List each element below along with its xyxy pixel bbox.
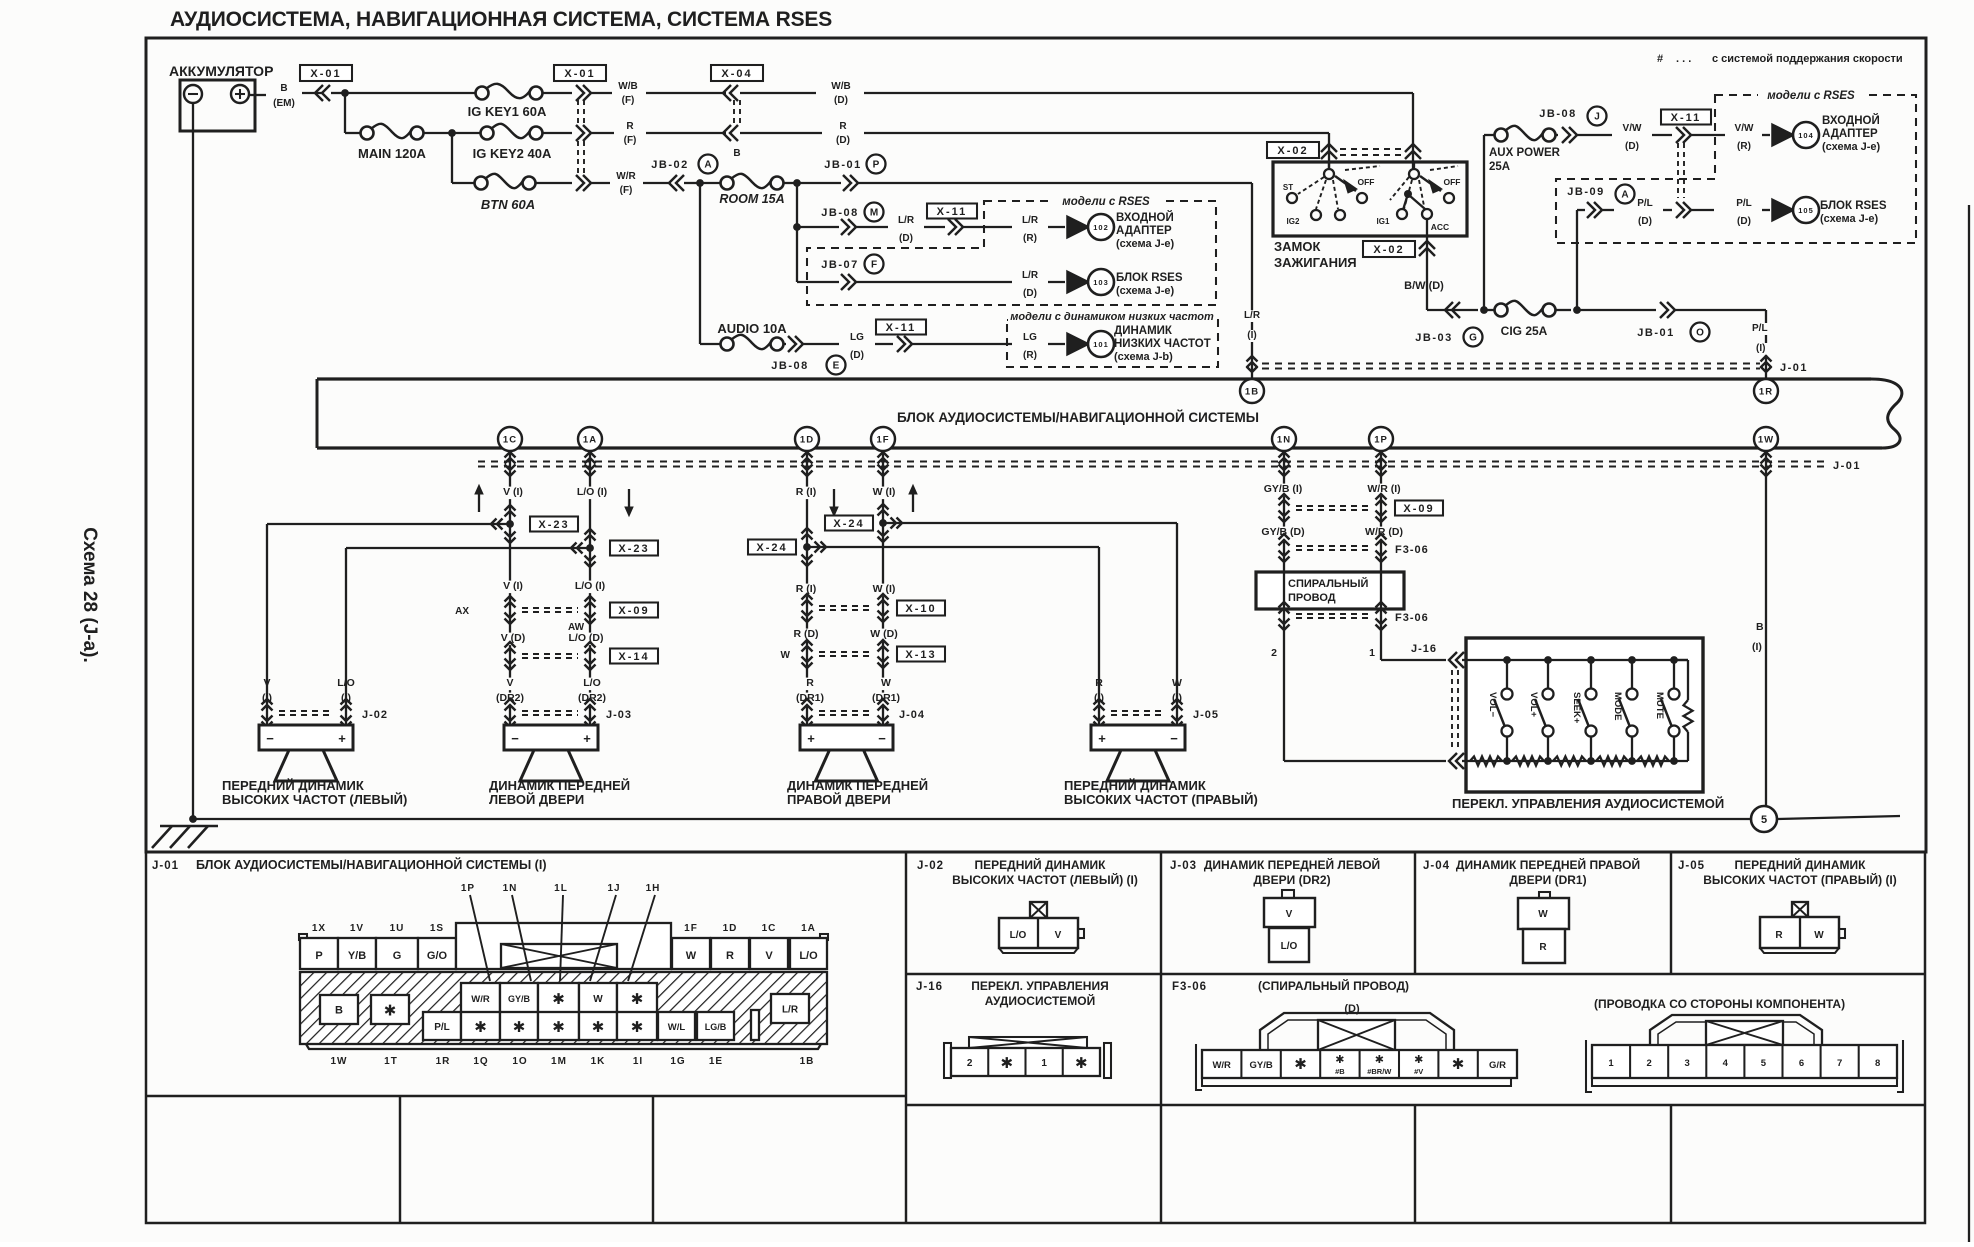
fuse IG KEY1 60A <box>476 87 489 100</box>
svg-text:R: R <box>626 121 634 132</box>
svg-text:1W: 1W <box>1758 435 1774 446</box>
wire X-23 to left tweeter L/O <box>346 547 590 549</box>
connector arrow JB-02 <box>676 175 684 191</box>
wire W/R column <box>1380 450 1382 660</box>
svg-text:ПРАВОЙ ДВЕРИ: ПРАВОЙ ДВЕРИ <box>787 792 891 807</box>
svg-text:X-23: X-23 <box>618 543 649 555</box>
svg-text:1T: 1T <box>384 1056 398 1067</box>
svg-text:ВХОДНОЙ: ВХОДНОЙ <box>1822 114 1880 127</box>
svg-text:ПЕРЕДНИЙ ДИНАМИК: ПЕРЕДНИЙ ДИНАМИК <box>1064 778 1206 793</box>
svg-text:1W: 1W <box>331 1056 348 1067</box>
label GY/B (D) <box>1255 527 1311 540</box>
svg-text:8: 8 <box>1875 1058 1880 1069</box>
svg-text:F: F <box>871 260 877 271</box>
wire 2 to control switch <box>1284 760 1446 762</box>
fuse BTN 60A <box>475 177 488 190</box>
wire battery to X-01 <box>302 92 322 94</box>
svg-text:✱: ✱ <box>384 1003 397 1020</box>
svg-text:3: 3 <box>1685 1058 1690 1069</box>
svg-text:J-02: J-02 <box>917 860 944 872</box>
svg-text:X-09: X-09 <box>618 605 649 617</box>
label X-04 <box>711 65 763 81</box>
inline connector X-10 <box>802 594 813 600</box>
svg-text:W/R: W/R <box>616 171 636 182</box>
svg-text:E: E <box>833 361 840 372</box>
svg-text:101: 101 <box>1093 340 1109 349</box>
svg-text:V/W: V/W <box>1623 123 1642 134</box>
wire W/B (F) <box>591 92 612 94</box>
svg-text:P/L: P/L <box>1736 198 1752 209</box>
pin 1P <box>1369 427 1393 451</box>
inline connector X-09 right <box>1279 494 1290 500</box>
svg-text:ЛЕВОЙ ДВЕРИ: ЛЕВОЙ ДВЕРИ <box>489 792 584 807</box>
node after CIG fuse <box>1573 306 1581 314</box>
svg-text:#V: #V <box>1414 1067 1423 1076</box>
connector J-03 drawing <box>1282 890 1294 898</box>
wire W/B (D) <box>740 92 816 94</box>
junction X-24 no1 (W) <box>878 504 889 510</box>
svg-text:1N: 1N <box>1277 435 1291 446</box>
svg-text:1R: 1R <box>436 1056 451 1067</box>
svg-text:(ПРОВОДКА СО СТОРОНЫ КОМПОНЕНТ: (ПРОВОДКА СО СТОРОНЫ КОМПОНЕНТА) <box>1594 997 1845 1011</box>
svg-text:X-11: X-11 <box>1671 112 1702 124</box>
ground symbol <box>160 825 218 828</box>
svg-text:JB-07: JB-07 <box>821 259 858 271</box>
svg-text:V: V <box>765 950 773 962</box>
svg-text:R (I): R (I) <box>796 486 816 498</box>
label W (DR1) <box>881 678 892 691</box>
wire to BTN fuse <box>451 133 453 183</box>
svg-text:1L: 1L <box>554 883 568 894</box>
svg-text:B: B <box>733 148 740 159</box>
svg-text:L/R: L/R <box>1244 310 1261 321</box>
svg-text:ВХОДНОЙ: ВХОДНОЙ <box>1116 211 1174 224</box>
svg-text:(I): (I) <box>1752 641 1762 653</box>
svg-text:X-24: X-24 <box>833 518 864 530</box>
svg-text:W: W <box>1538 909 1548 920</box>
speaker right tweeter <box>1091 725 1185 750</box>
svg-text:LG: LG <box>1023 332 1037 343</box>
connector arrow X-01 harness <box>322 85 330 101</box>
svg-text:ВЫСОКИХ ЧАСТОТ (ЛЕВЫЙ): ВЫСОКИХ ЧАСТОТ (ЛЕВЫЙ) <box>222 792 407 807</box>
svg-text:103: 103 <box>1093 278 1109 287</box>
svg-text:L/O: L/O <box>799 950 818 962</box>
svg-text:IG KEY2 40A: IG KEY2 40A <box>473 146 552 161</box>
label P/L (I) <box>1752 323 1775 335</box>
svg-text:1P: 1P <box>461 883 475 894</box>
svg-text:#BR/W: #BR/W <box>1367 1067 1392 1076</box>
label R (D) <box>788 629 825 642</box>
spiral wire box СПИРАЛЬНЫЙ ПРОВОД <box>1256 572 1404 609</box>
svg-text:ST: ST <box>1283 183 1293 192</box>
svg-text:5: 5 <box>1761 1058 1767 1069</box>
pin 1C <box>498 427 522 451</box>
inline connector X-04 marks W/B <box>730 85 738 101</box>
label V (I) b <box>495 581 532 594</box>
svg-text:BTN 60A: BTN 60A <box>481 197 535 212</box>
svg-text:2: 2 <box>1646 1058 1651 1069</box>
svg-text:(D): (D) <box>1737 216 1751 227</box>
svg-text:JB-01: JB-01 <box>1637 327 1674 339</box>
label X-11 upper <box>927 204 977 219</box>
svg-text:1X: 1X <box>312 923 326 934</box>
svg-text:1G: 1G <box>670 1056 685 1067</box>
svg-text:L/R: L/R <box>1022 270 1039 281</box>
svg-text:ПЕРЕКЛ. УПРАВЛЕНИЯ: ПЕРЕКЛ. УПРАВЛЕНИЯ <box>971 979 1108 993</box>
svg-text:V: V <box>1055 930 1062 941</box>
svg-text:1F: 1F <box>876 435 889 446</box>
inline connector X-14 <box>505 642 516 648</box>
wire W column <box>882 450 884 725</box>
svg-text:AUDIO 10A: AUDIO 10A <box>717 321 787 336</box>
svg-text:#B: #B <box>1335 1067 1345 1076</box>
wire R column <box>806 450 808 725</box>
svg-text:G: G <box>1469 333 1477 344</box>
svg-text:B: B <box>335 1005 343 1017</box>
svg-text:+: + <box>1098 731 1106 746</box>
connector label X-01 left <box>300 65 352 81</box>
svg-text:1D: 1D <box>800 435 814 446</box>
page edge line <box>1968 205 1970 1242</box>
wire X-24 to right tweeter R <box>807 546 1099 548</box>
label X-11 right <box>1661 110 1711 125</box>
label L/O (I) b <box>565 581 615 594</box>
connector arrow JB-01 O <box>1660 302 1668 318</box>
svg-text:F3-06: F3-06 <box>1395 612 1429 624</box>
svg-text:6: 6 <box>1799 1058 1804 1069</box>
svg-text:V: V <box>506 677 513 689</box>
svg-text:VOL−: VOL− <box>1487 692 1498 718</box>
svg-text:с системой поддержания скорост: с системой поддержания скорости <box>1712 53 1903 65</box>
fuse MAIN 120A <box>361 127 374 140</box>
svg-text:−: − <box>1170 731 1178 746</box>
svg-text:W/L: W/L <box>668 1022 686 1033</box>
label W/R (D) <box>1359 527 1409 540</box>
inline connector F3-06 upper <box>1279 534 1290 540</box>
inline connector J-16 marks <box>1456 652 1464 668</box>
svg-text:✱: ✱ <box>474 1019 487 1036</box>
svg-text:−: − <box>878 731 886 746</box>
wire B column <box>1765 450 1767 806</box>
svg-text:БЛОК RSES: БЛОК RSES <box>1820 200 1887 212</box>
svg-text:(R): (R) <box>1737 141 1751 152</box>
table outer frame <box>146 852 1925 1223</box>
svg-text:JB-08: JB-08 <box>821 207 858 219</box>
connector J-16 drawing <box>969 1037 1087 1048</box>
svg-text:L/R: L/R <box>1022 215 1039 226</box>
svg-text:AUX POWER: AUX POWER <box>1489 147 1561 159</box>
connector arrow AUX POWER <box>1556 134 1558 136</box>
svg-text:R (I): R (I) <box>796 583 816 595</box>
resistor ladder in switch <box>1470 757 1502 766</box>
wire L/R (I) drop to 1B <box>1251 183 1253 379</box>
label pin 1 <box>1367 648 1378 661</box>
svg-text:1F: 1F <box>684 923 698 934</box>
svg-text:X-11: X-11 <box>937 206 968 218</box>
label R (I) a <box>788 487 825 500</box>
svg-text:L/R: L/R <box>898 215 915 226</box>
svg-text:J-04: J-04 <box>1423 860 1450 872</box>
svg-text:2: 2 <box>967 1058 973 1069</box>
svg-text:ПЕРЕДНИЙ ДИНАМИК: ПЕРЕДНИЙ ДИНАМИК <box>1735 857 1867 872</box>
svg-text:ROOM 15A: ROOM 15A <box>719 192 784 206</box>
svg-text:J-01: J-01 <box>1780 362 1808 374</box>
ground bus wire <box>192 103 194 819</box>
inline connector J-01 bottom marks <box>585 452 596 458</box>
schematic ref 103 RSES unit <box>1067 271 1089 293</box>
fuse AUX POWER 25A <box>1495 129 1508 142</box>
svg-text:(схема J-b): (схема J-b) <box>1114 351 1173 363</box>
ignition switch right pole <box>1409 169 1419 179</box>
label W (I) a <box>866 487 903 500</box>
inline connector J-02 <box>266 677 268 725</box>
schematic ref 104 input adapter <box>1772 124 1794 146</box>
connector J-01 sliver cell <box>751 1010 759 1040</box>
svg-text:1U: 1U <box>390 923 405 934</box>
svg-text:GY/B: GY/B <box>1249 1060 1272 1071</box>
svg-text:1K: 1K <box>591 1056 606 1067</box>
wire JB-01 P <box>797 182 841 184</box>
svg-text:JB-02: JB-02 <box>651 159 688 171</box>
svg-text:V (I): V (I) <box>503 580 523 592</box>
inline connector J-03 <box>505 699 516 705</box>
label V (DR2) <box>505 678 516 691</box>
svg-text:БЛОК АУДИОСИСТЕМЫ/НАВИГАЦИОННО: БЛОК АУДИОСИСТЕМЫ/НАВИГАЦИОННОЙ СИСТЕМЫ … <box>196 857 546 872</box>
svg-text:СПИРАЛЬНЫЙ: СПИРАЛЬНЫЙ <box>1288 577 1369 590</box>
svg-text:W/R: W/R <box>1212 1060 1231 1071</box>
fuse ROOM 15A <box>721 177 734 190</box>
svg-text:1I: 1I <box>633 1056 643 1067</box>
svg-text:102: 102 <box>1093 223 1109 232</box>
svg-text:X-04: X-04 <box>721 68 752 80</box>
svg-text:✱: ✱ <box>513 1019 526 1036</box>
wire 1 to control switch <box>1381 659 1446 661</box>
node 5 <box>1751 806 1777 832</box>
svg-text:L/O: L/O <box>583 677 601 689</box>
inline connector X-02 marks <box>1321 144 1337 152</box>
svg-text:W (I): W (I) <box>873 486 896 498</box>
table verticals <box>905 852 907 1223</box>
svg-text:V/W: V/W <box>1735 123 1754 134</box>
svg-text:✱: ✱ <box>1452 1056 1465 1073</box>
speaker left door <box>504 725 598 750</box>
svg-text:W (D): W (D) <box>870 628 897 640</box>
pin 1F <box>871 427 895 451</box>
inline connector X-01 dashed link <box>577 100 579 126</box>
label R (DR1) <box>805 678 816 691</box>
svg-text:25A: 25A <box>1489 161 1510 173</box>
svg-text:ДИНАМИК: ДИНАМИК <box>1114 325 1173 337</box>
connector arrow X-11 E <box>897 336 905 352</box>
pin 1W <box>1754 427 1778 451</box>
svg-text:+: + <box>807 731 815 746</box>
connector J-01 hatched body <box>300 972 827 1044</box>
svg-text:1N: 1N <box>503 883 518 894</box>
inline connector X-02 marks ACC <box>1419 241 1435 249</box>
svg-text:АУДИОСИСТЕМОЙ: АУДИОСИСТЕМОЙ <box>985 993 1096 1008</box>
svg-text:2: 2 <box>1271 647 1277 659</box>
svg-text:L/O: L/O <box>1010 930 1027 941</box>
svg-text:J-02: J-02 <box>362 709 388 721</box>
junction X-23 no2 <box>585 529 596 535</box>
svg-text:ДИНАМИК ПЕРЕДНЕЙ ПРАВОЙ: ДИНАМИК ПЕРЕДНЕЙ ПРАВОЙ <box>1456 857 1640 872</box>
connector J-04 drawing <box>1539 892 1550 899</box>
connector J-01 pin cell B <box>320 995 358 1024</box>
svg-text:БЛОК АУДИОСИСТЕМЫ/НАВИГАЦИОННО: БЛОК АУДИОСИСТЕМЫ/НАВИГАЦИОННОЙ СИСТЕМЫ <box>897 410 1259 425</box>
svg-text:SEEK+: SEEK+ <box>1571 692 1582 724</box>
pin 1D <box>795 427 819 451</box>
svg-text:B/W (D): B/W (D) <box>1404 280 1444 292</box>
inline connector X-01 marks R <box>576 125 584 141</box>
svg-text:V: V <box>1286 909 1293 920</box>
schematic ref 102 input adapter <box>1067 216 1089 238</box>
inline connector X-01 marks W/R <box>576 175 584 191</box>
svg-text:JB-09: JB-09 <box>1567 186 1604 198</box>
connector J-01 crossed cell <box>501 944 617 968</box>
dashed region models with RSES left <box>807 201 1216 305</box>
svg-text:X-02: X-02 <box>1373 244 1404 256</box>
svg-text:(F): (F) <box>620 185 633 196</box>
svg-text:L/O (I): L/O (I) <box>577 486 607 498</box>
svg-text:модели с RSES: модели с RSES <box>1767 90 1855 102</box>
connector F3-06 harness-side drawing <box>1260 1013 1454 1050</box>
svg-text:R: R <box>806 677 814 689</box>
svg-text:1B: 1B <box>800 1056 815 1067</box>
svg-text:1C: 1C <box>503 435 517 446</box>
svg-text:ДИНАМИК ПЕРЕДНЕЙ: ДИНАМИК ПЕРЕДНЕЙ <box>787 778 928 793</box>
arrow down R <box>833 489 835 511</box>
wire JB-09 branch <box>1576 210 1578 310</box>
connector J-01 pin cell L/R <box>771 994 809 1023</box>
svg-text:✱: ✱ <box>631 991 644 1008</box>
svg-text:W/R: W/R <box>471 994 490 1005</box>
label W (I) b <box>866 584 903 597</box>
svg-text:1P: 1P <box>1374 435 1388 446</box>
connector J-02 drawing <box>1030 902 1047 918</box>
svg-text:АДАПТЕР: АДАПТЕР <box>1822 128 1878 140</box>
pin 1N <box>1272 427 1296 451</box>
svg-text:ПЕРЕДНИЙ ДИНАМИК: ПЕРЕДНИЙ ДИНАМИК <box>222 778 364 793</box>
svg-text:J-05: J-05 <box>1193 709 1219 721</box>
wire JB-01 O <box>1577 309 1656 311</box>
table horizontals <box>906 973 1925 975</box>
svg-text:X-02: X-02 <box>1277 145 1308 157</box>
inline connector J-05 <box>1098 677 1100 725</box>
wire GY/B column <box>1283 450 1285 761</box>
dashed region models with woofer <box>1007 320 1218 367</box>
inline connector J-01 bottom marks <box>1279 452 1290 458</box>
connector J-01 pin cell star <box>371 995 409 1024</box>
label L/O (DR2) <box>580 678 604 691</box>
svg-text:P/L: P/L <box>1637 198 1653 209</box>
svg-text:1A: 1A <box>801 923 816 934</box>
svg-text:ПРОВОД: ПРОВОД <box>1288 592 1336 604</box>
pin 1A <box>578 427 602 451</box>
inline connector X-11 dashed link right <box>1677 143 1679 198</box>
svg-text:ВЫСОКИХ ЧАСТОТ (ЛЕВЫЙ) (I): ВЫСОКИХ ЧАСТОТ (ЛЕВЫЙ) (I) <box>952 872 1138 887</box>
svg-text:P: P <box>873 160 880 171</box>
svg-text:J: J <box>1594 112 1600 123</box>
svg-text:R: R <box>726 950 734 962</box>
label pin 2 <box>1269 648 1280 661</box>
inline connector F3-06 lower <box>1279 602 1290 608</box>
ignition switch left pole <box>1324 169 1334 179</box>
svg-text:БЛОК RSES: БЛОК RSES <box>1116 272 1183 284</box>
svg-text:M: M <box>870 208 878 219</box>
svg-text:JB-08: JB-08 <box>1539 108 1576 120</box>
schematic ref 101 woofer <box>1067 333 1089 355</box>
svg-text:НИЗКИХ ЧАСТОТ: НИЗКИХ ЧАСТОТ <box>1114 338 1211 350</box>
svg-text:J-04: J-04 <box>899 709 925 721</box>
inline connector J-01 bottom marks <box>802 452 813 458</box>
svg-text:X-13: X-13 <box>905 649 936 661</box>
svg-text:JB-03: JB-03 <box>1415 332 1452 344</box>
node main junction <box>341 89 349 97</box>
svg-text:GY/B: GY/B <box>508 994 531 1004</box>
svg-text:1A: 1A <box>583 435 597 446</box>
inline connector X-11 marks V/W <box>1676 127 1684 143</box>
svg-text:✱: ✱ <box>1414 1054 1423 1066</box>
svg-text:J-03: J-03 <box>1170 860 1197 872</box>
svg-text:W: W <box>781 650 791 661</box>
svg-text:X-09: X-09 <box>1403 503 1434 515</box>
svg-text:(R): (R) <box>1023 350 1037 361</box>
svg-text:(D): (D) <box>1023 288 1037 299</box>
speaker right door <box>800 725 893 750</box>
svg-text:(схема J-e): (схема J-e) <box>1820 213 1879 225</box>
svg-text:R: R <box>839 121 847 132</box>
svg-text:1: 1 <box>1041 1058 1047 1069</box>
arrow down L/O <box>628 489 630 511</box>
svg-text:1: 1 <box>1369 647 1375 659</box>
svg-text:(ЕМ): (ЕМ) <box>273 98 295 109</box>
svg-text:MODE: MODE <box>1612 692 1623 721</box>
fuse IG KEY2 40A <box>481 127 494 140</box>
svg-text:1O: 1O <box>512 1056 527 1067</box>
svg-text:R: R <box>1539 942 1547 953</box>
svg-text:1D: 1D <box>723 923 738 934</box>
svg-text:ДВЕРИ (DR1): ДВЕРИ (DR1) <box>1509 873 1586 887</box>
label GY/B (I) <box>1255 484 1311 497</box>
switch SEEK+ <box>1590 660 1592 688</box>
fuse CIG 25A <box>1484 309 1494 311</box>
wire X-24 to right tweeter W <box>883 522 1177 524</box>
switch VOL- <box>1506 660 1508 688</box>
wire R (D) to ignition switch <box>864 132 1329 134</box>
inline connector X-01 marks W/B <box>576 85 584 101</box>
schematic ref 105 RSES unit <box>1772 199 1794 221</box>
svg-text:GY/B (I): GY/B (I) <box>1264 483 1303 495</box>
svg-text:P: P <box>315 950 322 962</box>
svg-text:(D): (D) <box>1638 216 1652 227</box>
pin 1R <box>1754 379 1778 403</box>
svg-text:(D): (D) <box>1625 141 1639 152</box>
svg-text:X-14: X-14 <box>618 651 649 663</box>
svg-text:O: O <box>1696 328 1704 339</box>
svg-text:F3-06: F3-06 <box>1172 981 1207 993</box>
svg-text:+: + <box>583 731 591 746</box>
svg-text:(D): (D) <box>834 95 848 106</box>
svg-text:(I): (I) <box>1756 343 1765 354</box>
svg-text:✱: ✱ <box>592 1019 605 1036</box>
label L/R (I) <box>1241 310 1264 322</box>
svg-text:X-01: X-01 <box>564 68 595 80</box>
svg-text:#: # <box>1657 53 1663 65</box>
inline connector J-01 top dashed bus <box>1262 362 1760 364</box>
svg-text:B: B <box>280 83 287 94</box>
switch MODE <box>1631 660 1633 688</box>
svg-text:1E: 1E <box>709 1056 723 1067</box>
